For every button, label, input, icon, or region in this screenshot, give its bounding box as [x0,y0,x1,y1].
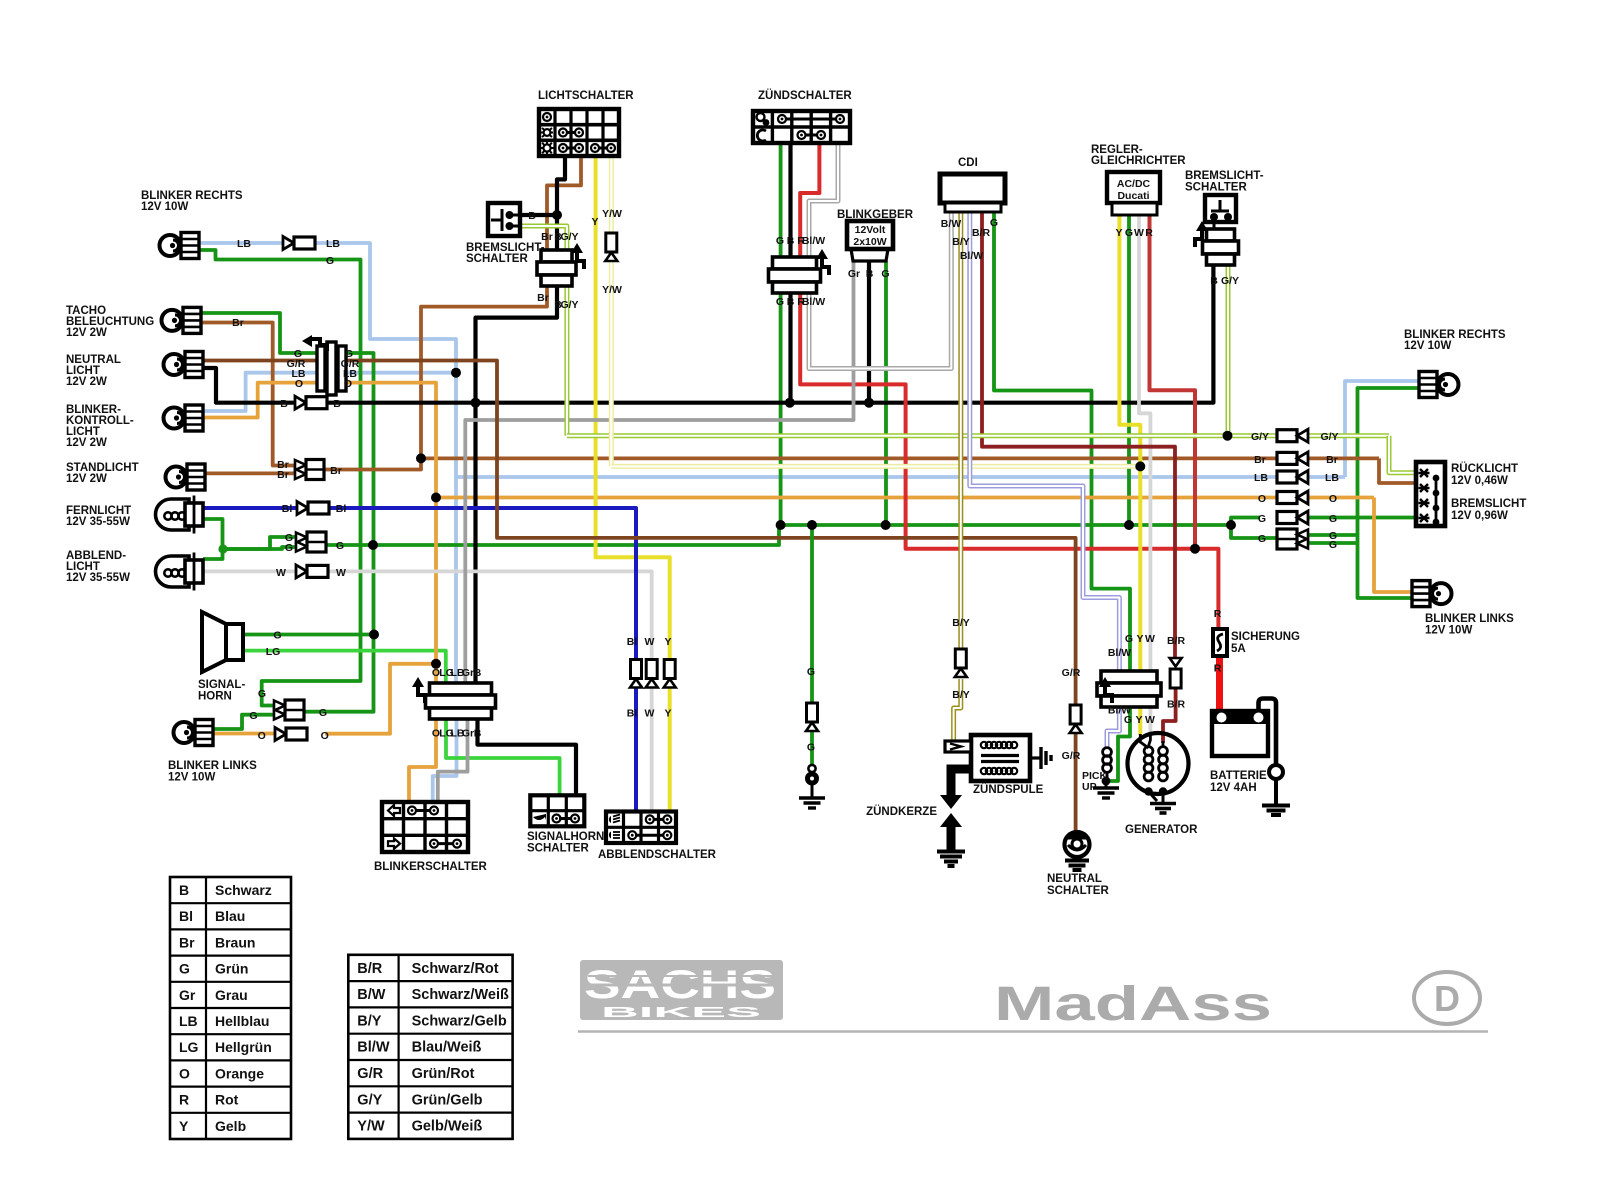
svg-text:G/R: G/R [357,1066,383,1082]
svg-text:Gr: Gr [462,728,474,740]
svg-text:G: G [1125,633,1133,645]
svg-text:W: W [276,567,286,579]
svg-text:LB: LB [237,238,251,250]
svg-text:ZÜNDSCHALTER: ZÜNDSCHALTER [758,89,852,102]
svg-text:Braun: Braun [215,934,255,950]
svg-text:12V 10W: 12V 10W [1404,340,1451,352]
svg-text:W: W [645,708,655,720]
svg-text:Gelb: Gelb [215,1118,246,1134]
svg-text:O: O [344,378,352,390]
svg-text:LG: LG [179,1039,199,1055]
svg-text:12V 2W: 12V 2W [66,327,107,339]
svg-text:12V 2W: 12V 2W [66,437,107,449]
svg-text:B: B [280,398,288,410]
svg-text:Br: Br [179,934,195,950]
svg-text:Schwarz/Rot: Schwarz/Rot [412,961,499,977]
svg-text:SCHALTER: SCHALTER [466,253,528,265]
svg-text:O: O [1329,493,1337,505]
svg-text:G: G [776,296,784,308]
svg-text:B/Y: B/Y [952,236,970,248]
svg-text:Gr: Gr [848,268,860,280]
svg-text:Y: Y [1135,714,1142,726]
svg-text:W: W [1145,633,1155,645]
svg-text:12V 4AH: 12V 4AH [1210,782,1257,794]
svg-text:SIGNAL-: SIGNAL- [198,679,245,691]
svg-text:Blau/Weiß: Blau/Weiß [412,1040,482,1056]
svg-text:Y/W: Y/W [357,1119,385,1135]
svg-text:2x10W: 2x10W [853,236,886,248]
svg-text:Gr: Gr [179,987,196,1003]
svg-text:B/W: B/W [357,987,386,1003]
svg-text:12Volt: 12Volt [855,224,886,236]
svg-text:Ducati: Ducati [1117,190,1149,202]
svg-text:Bl/W: Bl/W [960,250,983,262]
svg-text:5A: 5A [1231,643,1246,655]
svg-text:Y: Y [664,636,671,648]
svg-text:12V 35-55W: 12V 35-55W [66,572,130,584]
svg-text:Y: Y [179,1118,189,1134]
svg-text:Y/W: Y/W [602,208,622,220]
svg-text:SCHALTER: SCHALTER [1047,885,1109,897]
svg-text:LB: LB [1325,472,1339,484]
svg-text:12V 2W: 12V 2W [66,376,107,388]
svg-text:Grün: Grün [215,961,248,977]
svg-text:Schwarz/Gelb: Schwarz/Gelb [412,1013,507,1029]
svg-text:G: G [336,540,344,552]
svg-text:G: G [319,707,327,719]
svg-text:Bl: Bl [179,908,193,924]
svg-text:Blau: Blau [215,908,245,924]
svg-text:Y: Y [591,216,598,228]
svg-text:Br: Br [1254,454,1266,466]
svg-text:B/Y: B/Y [357,1013,382,1029]
svg-text:G: G [1329,539,1337,551]
svg-text:SCHALTER: SCHALTER [527,843,589,855]
svg-text:Bl/W: Bl/W [357,1040,390,1056]
svg-text:Br: Br [537,292,549,304]
svg-text:G: G [249,710,257,722]
svg-text:G: G [1258,513,1266,525]
svg-text:RÜCKLICHT: RÜCKLICHT [1451,462,1518,475]
svg-text:LG: LG [266,646,281,658]
svg-text:SIGNALHORN: SIGNALHORN [527,831,604,843]
svg-text:B: B [474,728,482,740]
svg-text:Hellblau: Hellblau [215,1013,269,1029]
svg-text:B/Y: B/Y [952,617,970,629]
svg-text:LICHTSCHALTER: LICHTSCHALTER [538,90,634,102]
svg-text:G: G [273,630,281,642]
svg-text:G/Y: G/Y [1251,431,1269,443]
svg-text:Bl/W: Bl/W [1108,647,1131,659]
svg-text:G: G [285,542,293,554]
svg-text:G/R: G/R [1062,750,1081,762]
svg-text:Br: Br [277,469,289,481]
svg-text:GENERATOR: GENERATOR [1125,824,1198,836]
svg-text:Bl: Bl [282,503,293,515]
svg-text:R: R [1214,608,1222,620]
svg-text:G: G [881,268,889,280]
svg-text:Grün/Rot: Grün/Rot [412,1066,475,1082]
svg-text:B/R: B/R [972,227,991,239]
svg-text:O: O [321,730,329,742]
svg-text:LB: LB [1254,472,1268,484]
svg-text:AC/DC: AC/DC [1117,178,1151,190]
svg-text:W: W [645,636,655,648]
svg-text:BIKES: BIKES [601,1004,761,1021]
svg-text:Y/W: Y/W [602,284,622,296]
svg-text:BREMSLICHT-: BREMSLICHT- [1185,170,1264,182]
svg-text:Grün/Gelb: Grün/Gelb [412,1092,483,1108]
svg-text:Schwarz/Weiß: Schwarz/Weiß [412,987,509,1003]
svg-text:Bl: Bl [336,503,347,515]
svg-text:12V 35-55W: 12V 35-55W [66,516,130,528]
svg-text:Br: Br [232,317,244,329]
svg-text:B/Y: B/Y [952,689,970,701]
svg-text:G: G [258,688,266,700]
svg-text:R: R [1145,227,1153,239]
svg-text:G: G [807,666,815,678]
svg-text:Gelb/Weiß: Gelb/Weiß [412,1119,483,1135]
svg-text:BLINKER LINKS: BLINKER LINKS [168,760,257,772]
svg-text:W: W [1145,714,1155,726]
svg-text:SICHERUNG: SICHERUNG [1231,631,1300,643]
svg-text:Gr: Gr [462,667,474,679]
svg-text:LB: LB [179,1013,198,1029]
svg-text:B: B [528,210,536,222]
svg-text:BLINKGEBER: BLINKGEBER [837,209,914,221]
svg-text:G: G [807,742,815,754]
svg-text:B: B [787,296,795,308]
svg-text:O: O [258,730,266,742]
svg-text:Grau: Grau [215,987,248,1003]
svg-text:12V 10W: 12V 10W [1425,625,1472,637]
svg-text:Bl: Bl [627,636,638,648]
svg-text:B/R: B/R [1167,635,1186,647]
svg-text:O: O [179,1065,190,1081]
svg-text:G/Y: G/Y [560,231,578,243]
svg-text:G: G [179,961,190,977]
svg-text:O: O [1258,493,1266,505]
svg-text:B: B [1210,275,1218,287]
svg-text:UP: UP [1082,781,1097,793]
svg-text:B: B [787,235,795,247]
svg-text:12V 2W: 12V 2W [66,473,107,485]
svg-text:12V 10W: 12V 10W [168,772,215,784]
svg-text:Br: Br [330,465,342,477]
svg-text:LB: LB [326,238,340,250]
svg-text:Rot: Rot [215,1092,239,1108]
svg-text:BREMSLICHT: BREMSLICHT [1451,498,1526,510]
svg-text:B/R: B/R [1167,699,1186,711]
svg-text:G: G [990,217,998,229]
svg-text:GLEICHRICHTER: GLEICHRICHTER [1091,155,1186,167]
svg-text:Schwarz: Schwarz [215,882,272,898]
svg-text:BLINKERSCHALTER: BLINKERSCHALTER [374,861,488,873]
svg-text:B: B [333,398,341,410]
svg-text:B: B [179,882,189,898]
svg-text:G: G [326,255,334,267]
svg-text:12V 0,46W: 12V 0,46W [1451,475,1508,487]
svg-text:Br: Br [1326,454,1338,466]
svg-text:Bl: Bl [627,708,638,720]
svg-text:B/R: B/R [357,961,383,977]
svg-text:SCHALTER: SCHALTER [1185,182,1247,194]
svg-text:NEUTRAL: NEUTRAL [1047,873,1102,885]
svg-text:W: W [336,567,346,579]
svg-text:12V 0,96W: 12V 0,96W [1451,510,1508,522]
svg-text:G/Y: G/Y [1320,431,1338,443]
svg-text:B/W: B/W [941,218,962,230]
svg-text:MadAss: MadAss [994,978,1272,1031]
svg-text:Y: Y [1136,633,1143,645]
svg-text:G: G [1329,513,1337,525]
svg-text:G: G [776,235,784,247]
svg-text:R: R [1214,663,1222,675]
svg-text:ABBLENDSCHALTER: ABBLENDSCHALTER [598,849,717,861]
svg-text:Hellgrün: Hellgrün [215,1039,272,1055]
svg-text:R: R [179,1092,189,1108]
svg-text:ZÜNDKERZE: ZÜNDKERZE [866,805,937,818]
svg-text:B: B [474,667,482,679]
svg-text:BATTERIE: BATTERIE [1210,770,1267,782]
svg-text:W: W [1134,227,1144,239]
svg-text:Y: Y [1115,227,1122,239]
svg-text:G/R: G/R [1062,667,1081,679]
svg-text:Orange: Orange [215,1065,264,1081]
svg-text:Y: Y [664,708,671,720]
svg-text:G: G [1125,227,1133,239]
svg-text:ZÜNDSPULE: ZÜNDSPULE [973,783,1044,796]
svg-text:12V 10W: 12V 10W [141,201,188,213]
svg-text:HORN: HORN [198,691,232,703]
svg-text:G/Y: G/Y [560,299,578,311]
svg-text:G: G [1258,533,1266,545]
svg-text:BLINKER LINKS: BLINKER LINKS [1425,613,1514,625]
svg-text:Bl/W: Bl/W [802,296,825,308]
svg-text:B: B [866,268,874,280]
svg-text:G: G [1124,714,1132,726]
svg-text:Bl/W: Bl/W [802,235,825,247]
svg-text:CDI: CDI [958,157,978,169]
svg-text:O: O [295,378,303,390]
svg-text:G/Y: G/Y [357,1092,382,1108]
svg-text:G/Y: G/Y [1221,275,1239,287]
svg-text:D: D [1434,978,1460,1019]
